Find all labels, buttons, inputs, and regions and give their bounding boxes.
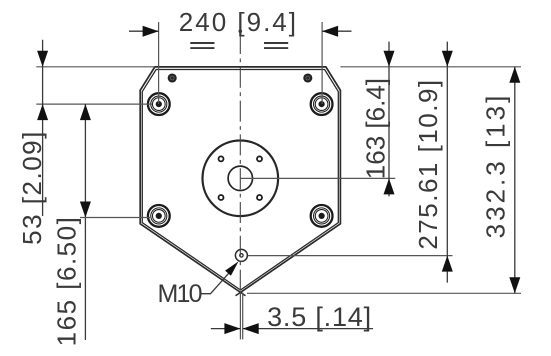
dim 165: dimension line bbox=[84, 104, 86, 340]
small pin hole top-right bbox=[303, 73, 312, 82]
dim 163: dimension line bbox=[388, 42, 390, 197]
dim 53: top arrow bbox=[37, 51, 48, 67]
bolt hole bottom-left bbox=[148, 205, 170, 227]
dim 332.3: dimension line bbox=[514, 67, 516, 293]
vertex overshoot right line bbox=[236, 292, 241, 295]
dim 3.5: dimension line right segment bbox=[243, 328, 373, 330]
vertex overshoot left line bbox=[241, 292, 246, 295]
vertex extension line bbox=[247, 292, 521, 294]
right top-edge extension line bbox=[340, 66, 521, 68]
dim 240: center dot bbox=[239, 29, 243, 33]
svg-text:3.5 [.14]: 3.5 [.14] bbox=[267, 302, 372, 332]
dim 275.61: dimension line bbox=[446, 42, 448, 283]
dim 165: top arrow bbox=[80, 104, 91, 120]
svg-text:163 [6.4]: 163 [6.4] bbox=[361, 78, 391, 179]
boss hole bottom-left bbox=[219, 195, 224, 200]
M10 hole circle bbox=[235, 249, 247, 261]
dim 53: dimension line bbox=[42, 40, 44, 216]
left bolt-row extension line bbox=[36, 103, 152, 105]
boss hole bottom-right bbox=[257, 195, 262, 200]
dim 240: dimension line right segment bbox=[322, 30, 351, 32]
equal-spacing mark left bbox=[190, 43, 214, 48]
M10 extension line bbox=[248, 255, 453, 257]
left top-edge extension line bbox=[36, 66, 155, 68]
dim 332.3: bottom arrow bbox=[509, 277, 520, 293]
dim 163: bottom arrow bbox=[384, 178, 395, 194]
dim 3.5: extension line right bbox=[242, 293, 244, 340]
dim 275.61: bottom arrow bbox=[442, 256, 453, 272]
dim 163: top arrow bbox=[384, 51, 395, 67]
M10 hole center dot bbox=[240, 254, 243, 257]
boss hole top-left bbox=[219, 156, 224, 161]
left bottom-bolt-row extension line bbox=[80, 217, 150, 219]
circle-center extension line bbox=[240, 177, 395, 179]
M10 leader arrow bbox=[225, 261, 238, 275]
center boss circle bbox=[203, 141, 279, 217]
dim 53: bottom arrow bbox=[37, 104, 48, 120]
bolt hole bottom-right bbox=[311, 205, 333, 227]
M10 leader line bbox=[200, 269, 234, 294]
plate inner contour line bbox=[142, 70, 338, 291]
svg-text:240 [9.4]: 240 [9.4] bbox=[179, 7, 298, 37]
bolt hole top-left bbox=[148, 93, 170, 115]
dim 3.5: right arrow bbox=[243, 323, 259, 334]
boss hole top-right bbox=[257, 156, 262, 161]
vertical centerline bbox=[239, 33, 241, 292]
svg-text:M10: M10 bbox=[158, 280, 202, 308]
svg-text:165 [6.50]: 165 [6.50] bbox=[52, 216, 82, 347]
bolt hole top-right bbox=[311, 93, 333, 115]
dim 240: left arrow bbox=[143, 26, 159, 37]
dim 240: dimension line left segment bbox=[129, 30, 159, 32]
dim 332.3: top arrow bbox=[509, 67, 520, 83]
svg-text:332.3 [13]: 332.3 [13] bbox=[481, 93, 511, 239]
dim 240: extension line left bbox=[158, 22, 160, 104]
dim 240: extension line right bbox=[321, 22, 323, 104]
svg-text:275.61 [10.9]: 275.61 [10.9] bbox=[413, 78, 443, 249]
small pin hole top-left bbox=[168, 73, 177, 82]
plate outer outline bbox=[140, 67, 340, 293]
svg-text:53 [2.09]: 53 [2.09] bbox=[17, 130, 47, 245]
center bore circle bbox=[228, 166, 252, 190]
dim 3.5: left arrow bbox=[224, 323, 240, 334]
dim 3.5: extension line left bbox=[239, 293, 241, 340]
dim 275.61: top arrow bbox=[442, 51, 453, 67]
dim 165: bottom arrow bbox=[80, 202, 91, 218]
dim 3.5: dimension line left segment bbox=[211, 328, 241, 330]
equal-spacing mark right bbox=[264, 43, 288, 48]
dim 240: right arrow bbox=[322, 26, 338, 37]
